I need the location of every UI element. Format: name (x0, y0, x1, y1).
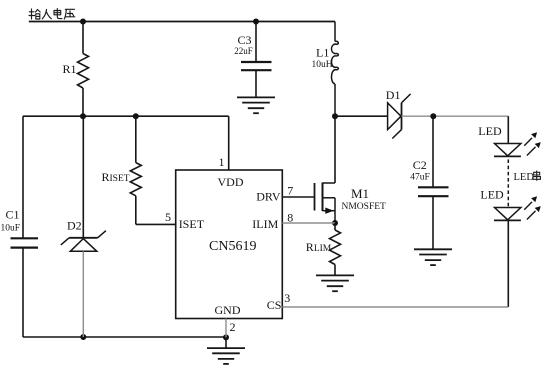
op-amp/IC U1 CN5619 box (176, 170, 283, 319)
svg-text:D2: D2 (67, 219, 82, 233)
LED D4 (bottom) (494, 208, 521, 221)
wire: LED rail top corner (507, 116, 509, 143)
wire: second rail (23, 115, 229, 117)
svg-text:GND: GND (215, 303, 241, 317)
svg-text:2: 2 (230, 320, 236, 334)
wire: ILIM (282, 222, 335, 224)
输 (29, 9, 40, 19)
capacitor C3 (241, 22, 272, 98)
capacitor C1 (11, 238, 39, 337)
svg-text:10uF: 10uF (1, 224, 21, 234)
svg-text:CN5619: CN5619 (209, 239, 256, 254)
svg-text:47uF: 47uF (410, 172, 430, 182)
capacitor C2 (418, 116, 449, 249)
resistor RISET (130, 116, 175, 224)
ground (C2) (414, 249, 452, 265)
node: L1/D1/drain junction (332, 113, 338, 119)
svg-text:7: 7 (287, 184, 293, 198)
resistor RLIM (330, 223, 341, 275)
node: input/C3 junction (253, 19, 259, 25)
node: rail/RISET junction (133, 113, 139, 119)
wire: bottom rail (23, 336, 226, 338)
svg-text:1: 1 (219, 155, 225, 169)
wire: D1 cathode to LED rail (402, 115, 509, 117)
svg-text:VDD: VDD (218, 175, 244, 189)
svg-text:DRV: DRV (256, 190, 281, 204)
resistor R1 (78, 22, 89, 117)
transistor M1 NMOSFET (315, 116, 336, 223)
wire: DRV to gate (282, 196, 314, 198)
wire: top input rail (29, 21, 335, 23)
svg-text:NMOSFET: NMOSFET (342, 202, 387, 212)
node: D1/C2 junction (430, 113, 436, 119)
svg-text:C2: C2 (413, 158, 427, 172)
svg-text:5: 5 (165, 210, 171, 224)
node: bottom/GND pin junction (223, 334, 229, 340)
svg-text:3: 3 (284, 291, 290, 305)
svg-text:R1: R1 (63, 62, 77, 76)
svg-text:22uF: 22uF (234, 46, 253, 56)
svg-text:10uH: 10uH (312, 60, 333, 70)
zener diode D2 (61, 116, 106, 251)
svg-text:LED: LED (480, 188, 504, 202)
串 glyph (533, 171, 540, 181)
svg-text:ISET: ISET (179, 217, 205, 231)
node: rail/R1-D2 junction (80, 113, 86, 119)
schottky diode D1 (335, 94, 411, 139)
入 (42, 10, 51, 19)
node: bottom/D2 junction (80, 334, 86, 340)
node: source/ILIM junction (332, 220, 338, 226)
svg-text:LED: LED (478, 124, 502, 138)
wire: dashed LED string (507, 159, 509, 206)
压 (64, 9, 75, 19)
wire: CS return (282, 306, 508, 308)
svg-text:L1: L1 (316, 46, 329, 60)
wire: pin1 VDD stem (228, 116, 230, 170)
svg-text:D1: D1 (386, 88, 401, 102)
svg-text:ILIM: ILIM (252, 217, 278, 231)
电 (54, 9, 62, 19)
wire: D2 anode to bottom rail (82, 251, 84, 337)
svg-text:M1: M1 (351, 186, 369, 201)
label 输入电压 (input voltage) (29, 9, 75, 19)
ground (pin 2) (225, 337, 227, 348)
inductor L1 (331, 22, 338, 117)
LED D3 (top) (494, 144, 521, 157)
wire: GND pin 2 stem (225, 319, 227, 338)
svg-text:LED: LED (514, 172, 535, 183)
wire: left rail (22, 116, 24, 238)
wire: LED rail bottom (507, 220, 509, 307)
node: input/R1 junction (80, 19, 86, 25)
svg-text:C1: C1 (6, 207, 20, 221)
svg-text:CS: CS (267, 298, 282, 312)
ground (C3) (237, 97, 275, 113)
ground (RLIM) (316, 275, 354, 291)
